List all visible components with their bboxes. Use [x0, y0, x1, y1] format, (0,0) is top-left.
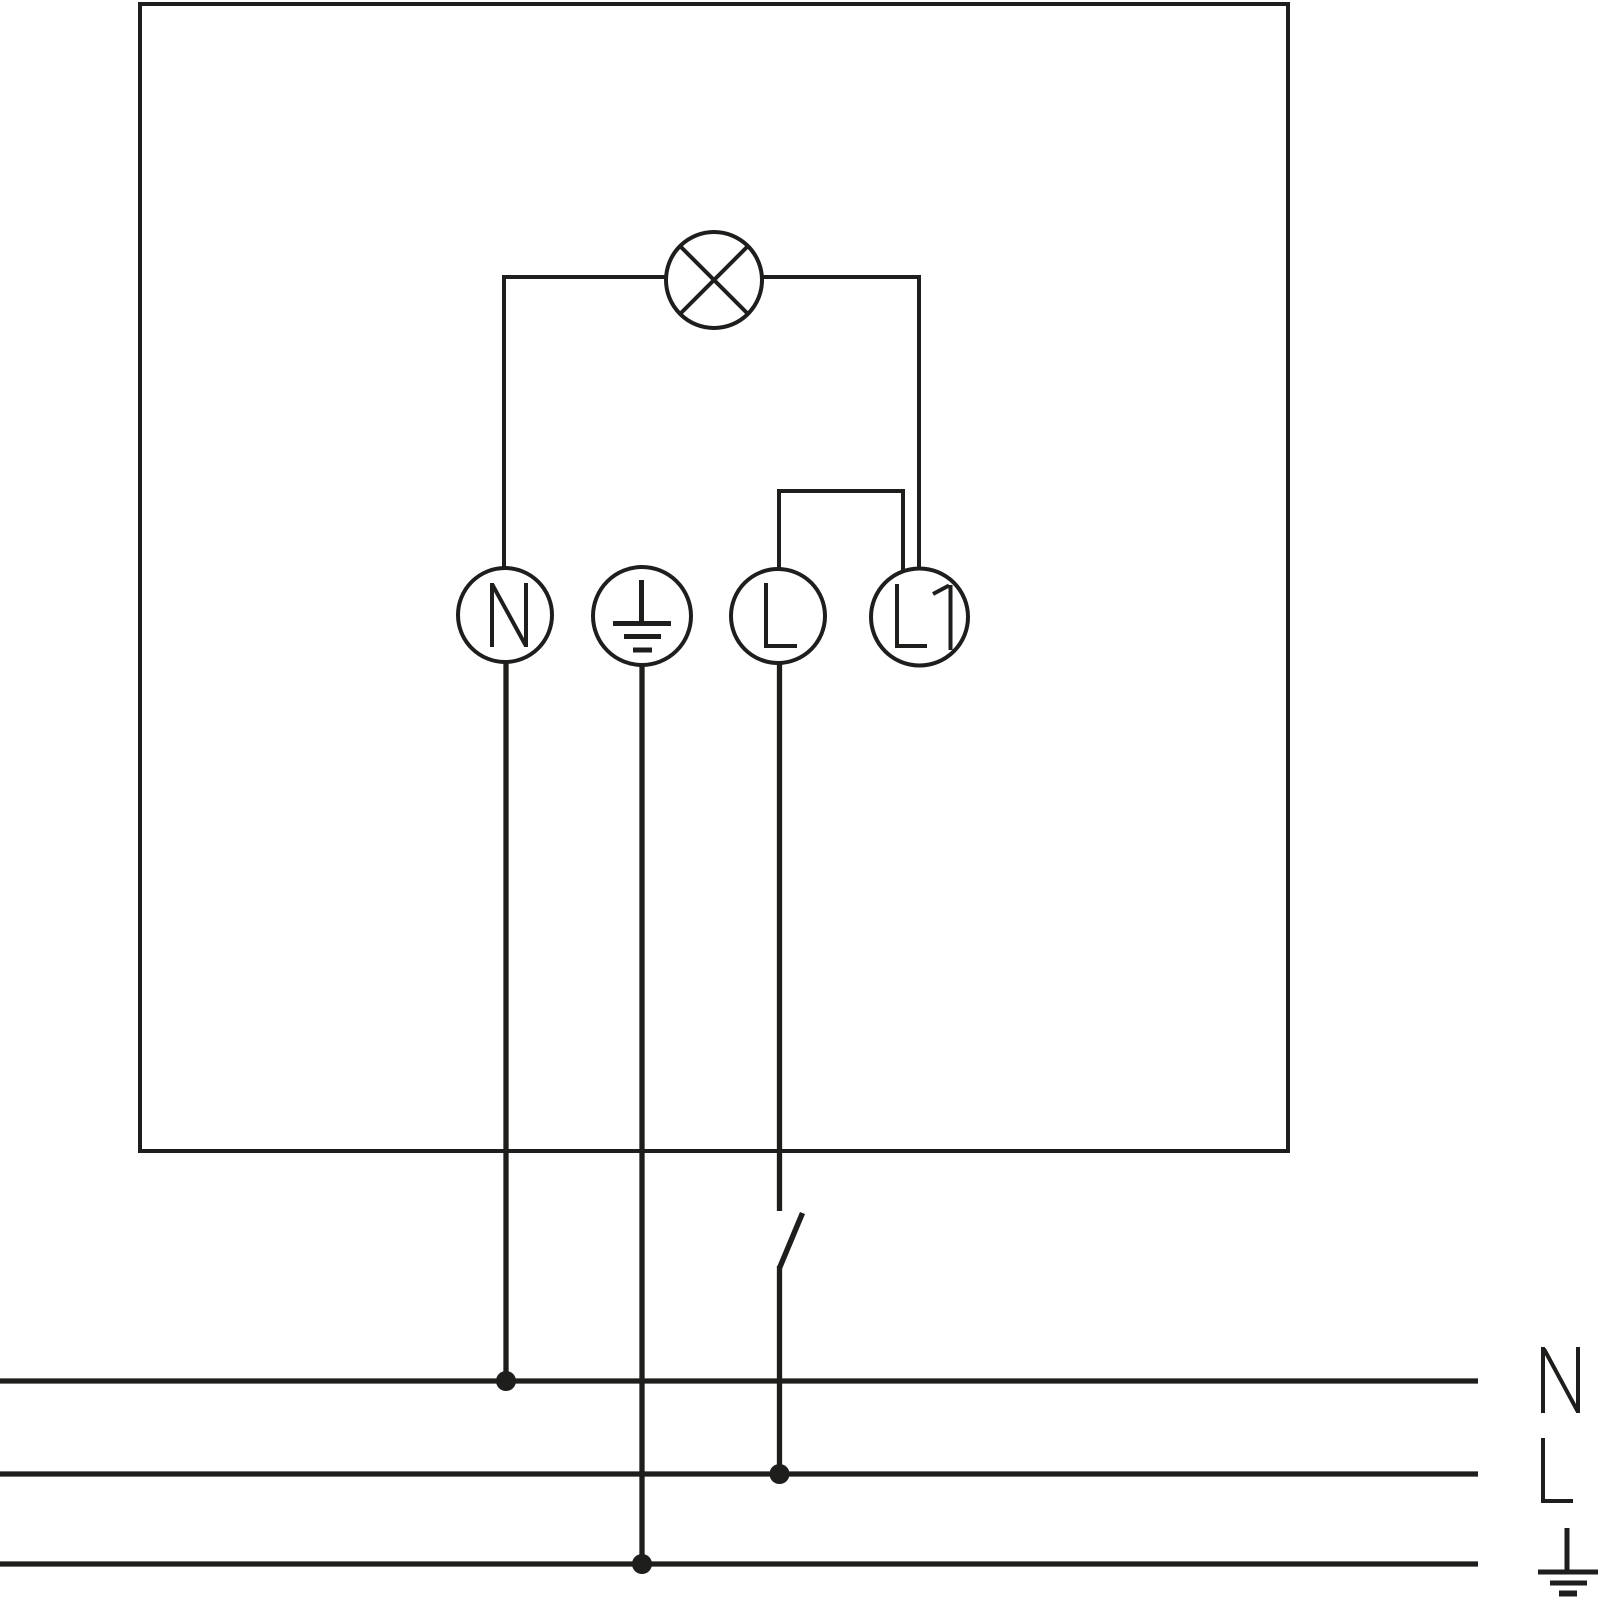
wire terminal N to N bus — [503, 662, 508, 1381]
wire terminal L to switch S1 — [777, 663, 782, 1211]
terminal PE ground — [593, 567, 691, 665]
wire lamp to terminal N — [504, 277, 666, 569]
terminal L1 — [871, 569, 968, 666]
junction L wire / L bus — [770, 1464, 790, 1484]
label L net — [1541, 1438, 1573, 1502]
PE bus — [0, 1561, 1478, 1566]
label N net — [1543, 1347, 1578, 1413]
lamp E1 — [666, 232, 762, 328]
N bus — [0, 1378, 1478, 1383]
junction PE wire / PE bus — [632, 1554, 652, 1574]
switch S1 blade — [780, 1213, 803, 1268]
L bus — [0, 1471, 1478, 1476]
wire switch S1 to L bus — [777, 1266, 782, 1474]
junction N wire / N bus — [496, 1371, 516, 1391]
terminal N — [458, 568, 552, 662]
ground symbol PE net — [1538, 1528, 1598, 1594]
wire bridge terminal L to terminal L1 — [779, 491, 903, 572]
terminal L — [731, 569, 825, 663]
enclosure outline — [140, 4, 1288, 1151]
wire terminal PE to PE bus — [639, 665, 644, 1564]
wire lamp to terminal L1 — [762, 277, 919, 569]
